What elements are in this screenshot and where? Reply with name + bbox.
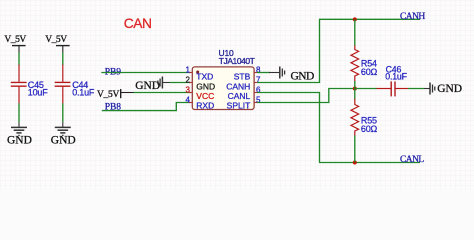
resistor R54 xyxy=(351,46,378,82)
pin 6 stub xyxy=(254,92,257,94)
svg-text:6: 6 xyxy=(256,86,261,95)
junction top xyxy=(353,17,357,21)
svg-text:V_5V: V_5V xyxy=(4,35,26,45)
svg-text:7: 7 xyxy=(256,76,261,85)
wire CANH rail to R54 xyxy=(354,19,356,46)
wire R55 to CANL rail xyxy=(354,136,356,163)
CAN transceiver U10 body xyxy=(192,67,254,110)
power port V_5V (column B) xyxy=(45,35,69,52)
ground at C46 xyxy=(424,83,462,95)
svg-text:GND: GND xyxy=(437,83,462,95)
ground (column A) xyxy=(7,122,32,147)
wire xyxy=(18,53,20,66)
wire C46 to ground xyxy=(408,88,425,90)
sheet background xyxy=(0,0,474,190)
svg-text:CANH: CANH xyxy=(400,12,425,22)
pin 8 stub xyxy=(254,72,257,74)
capacitor C44 xyxy=(55,65,95,104)
wire pin5 to split node xyxy=(257,89,353,103)
svg-text:STB: STB xyxy=(234,72,251,82)
resistor R55 xyxy=(351,99,378,136)
capacitor C45 xyxy=(11,65,48,104)
svg-text:TJA1040T: TJA1040T xyxy=(219,56,255,66)
ground at pin 8 xyxy=(269,67,314,83)
ground at pin 2 xyxy=(135,77,170,93)
wire pin6 down to CANL rail xyxy=(257,93,320,163)
wire pin7 up to CANH rail xyxy=(257,19,320,82)
svg-text:GND: GND xyxy=(196,81,215,91)
wire split node to R55 xyxy=(354,89,356,100)
svg-text:2: 2 xyxy=(186,76,191,85)
svg-text:60Ω: 60Ω xyxy=(361,124,378,134)
svg-text:60Ω: 60Ω xyxy=(361,67,378,77)
svg-text:0.1uF: 0.1uF xyxy=(385,72,407,82)
svg-text:SPLIT: SPLIT xyxy=(227,101,251,111)
wire PB9 to pin 1 xyxy=(101,72,190,74)
wire pin8 to ground xyxy=(257,72,270,74)
svg-text:V_5V: V_5V xyxy=(97,90,119,100)
wire xyxy=(134,92,191,94)
power port V_5V at pin 3 xyxy=(97,89,134,100)
wire CANL rail xyxy=(319,162,420,164)
wire CANH rail xyxy=(319,18,420,20)
wire PB8 to pin 4 xyxy=(102,103,191,111)
pin 4 stub xyxy=(189,102,192,104)
svg-text:GND: GND xyxy=(7,135,32,147)
svg-text:TXD: TXD xyxy=(196,72,213,82)
svg-text:GND: GND xyxy=(291,70,315,82)
svg-text:10uF: 10uF xyxy=(28,87,48,97)
wire xyxy=(62,53,64,66)
svg-text:3: 3 xyxy=(186,86,191,95)
pin 7 stub xyxy=(254,82,257,84)
svg-text:0.1uF: 0.1uF xyxy=(72,87,95,97)
svg-text:8: 8 xyxy=(256,66,261,75)
svg-text:CANL: CANL xyxy=(400,155,424,165)
wire R54 to split node xyxy=(354,81,356,89)
pin 1 stub xyxy=(189,72,192,74)
pin 3 stub xyxy=(189,92,192,94)
svg-text:RXD: RXD xyxy=(196,101,214,111)
svg-text:GND: GND xyxy=(135,80,160,92)
svg-text:CANH: CANH xyxy=(226,81,250,91)
junction bottom xyxy=(353,161,357,165)
wire xyxy=(18,103,20,122)
capacitor C46 xyxy=(377,65,409,97)
svg-text:GND: GND xyxy=(51,135,76,147)
pin 2 stub xyxy=(189,82,192,84)
junction split node xyxy=(353,87,357,91)
svg-text:5: 5 xyxy=(256,96,261,105)
svg-text:4: 4 xyxy=(186,96,191,105)
wire xyxy=(62,103,64,122)
svg-text:V_5V: V_5V xyxy=(45,35,67,45)
power port V_5V (column A) xyxy=(4,35,26,52)
wire split node to C46 xyxy=(355,88,377,90)
svg-text:1: 1 xyxy=(186,66,191,75)
wire xyxy=(170,82,191,84)
pin 5 stub xyxy=(254,102,257,104)
ground (column B) xyxy=(51,122,76,147)
svg-text:CAN: CAN xyxy=(124,16,152,31)
